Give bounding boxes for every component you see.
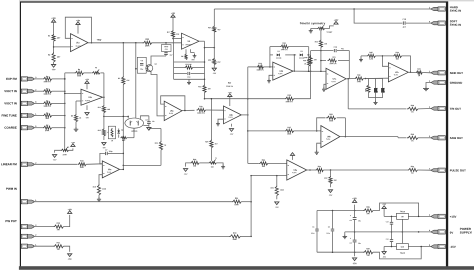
power flag -15V (R12 bottom) — [101, 136, 106, 149]
svg-text:100K: 100K — [234, 204, 239, 206]
wire ground jack — [426, 83, 431, 87]
svg-text:+5V: +5V — [97, 38, 102, 42]
output label -15V — [450, 245, 456, 249]
wire R46 to out — [402, 56, 411, 72]
svg-text:R11: R11 — [98, 107, 101, 109]
resistor R16c — [197, 106, 206, 114]
wire U2a feedback left rail — [65, 72, 75, 74]
wire bus to U2a -in — [64, 78, 81, 94]
power flag +15V (R17 top) — [171, 13, 176, 30]
svg-text:R46: R46 — [396, 51, 399, 54]
wire R34 down to linFM line — [123, 150, 161, 165]
svg-text:R31: R31 — [57, 242, 60, 244]
svg-text:R16: R16 — [208, 60, 211, 62]
svg-text:TL074: TL074 — [76, 45, 81, 48]
resistor R13b — [121, 137, 135, 142]
wire R33 to bus — [240, 235, 251, 237]
svg-text:510E: 510E — [366, 89, 368, 93]
resistor R8 — [75, 69, 84, 77]
power flag +15V (R30) — [67, 209, 72, 213]
resistor R23 — [326, 114, 336, 122]
op-amp U6b — [321, 126, 340, 148]
power flag -15V (U2b) — [229, 124, 234, 136]
power flag -15V (R2 bottom) — [51, 62, 56, 71]
svg-text:+15V: +15V — [51, 18, 56, 20]
svg-text:2M2: 2M2 — [45, 118, 49, 120]
svg-text:78L10: 78L10 — [400, 211, 405, 213]
input label PWM IN — [6, 187, 17, 191]
ground (U4 fb) — [187, 79, 191, 84]
op-amp U7b — [388, 63, 408, 82]
svg-text:+15V: +15V — [334, 20, 339, 22]
wire saw line — [345, 137, 406, 138]
wire reg2 gnd — [401, 232, 403, 244]
wire R31 to -15V — [63, 246, 69, 252]
capacitor C7 — [105, 150, 112, 156]
diode D2 — [374, 79, 379, 98]
wire diode tap — [294, 55, 296, 72]
jack J4 ground — [429, 80, 445, 84]
resistor R2 — [48, 52, 60, 62]
svg-text:+15V: +15V — [450, 215, 457, 219]
svg-text:D4: D4 — [278, 50, 280, 53]
wire V/OCT IN to R5 — [34, 102, 42, 104]
jack J13 0V — [429, 229, 445, 234]
wire U7a fb mid — [320, 51, 349, 72]
wire U5b fb top — [270, 46, 309, 48]
output label SOFT SYNC IN — [450, 19, 461, 26]
wire T3 to U2a out rail — [100, 73, 104, 97]
jack J6 saw out — [429, 136, 445, 140]
svg-text:T1: T1 — [215, 158, 217, 160]
ground (U6b) — [315, 150, 319, 154]
svg-text:4n7: 4n7 — [403, 26, 406, 29]
wire U7a fb right rail — [348, 51, 350, 79]
svg-text:COARSE: COARSE — [4, 126, 16, 130]
power flag +15V (PSU) — [352, 198, 357, 202]
resistor R29 — [205, 139, 217, 147]
power flag +15V (T2) — [69, 142, 76, 150]
jack J11 soft sync — [429, 20, 445, 25]
output label SINE OUT — [450, 71, 464, 75]
svg-text:R13: R13 — [122, 140, 125, 142]
trimmer T4 — [317, 25, 332, 34]
svg-text:D5: D5 — [301, 51, 303, 53]
power flag -15V (R28) — [183, 163, 190, 176]
op-amp U2a — [81, 89, 103, 105]
resistor R28 — [190, 159, 199, 167]
wire C7 loop — [100, 153, 123, 163]
jack J V/OCT IN — [21, 89, 37, 93]
wire U7a +in ground — [324, 84, 326, 87]
wire R17 to U4 -in — [172, 37, 181, 39]
transistor pair Q2 Q3 — [125, 118, 148, 133]
wire U8a +in line — [250, 175, 286, 177]
resistor R35 — [303, 58, 310, 66]
power flag +15V (U2b) — [227, 92, 232, 106]
svg-text:4u7: 4u7 — [169, 54, 172, 57]
wire reg1 gnd — [401, 219, 403, 232]
svg-text:R3: R3 — [46, 76, 48, 78]
wire pot bottom — [34, 245, 53, 247]
node U7a out — [346, 78, 354, 80]
capacitor C8 box — [137, 57, 146, 73]
svg-text:100K: 100K — [329, 120, 334, 122]
power flag -15V (PSU) — [352, 258, 357, 265]
svg-text:C9: C9 — [152, 121, 154, 123]
ground (panel) — [423, 86, 429, 90]
resistor R7 — [43, 125, 52, 132]
svg-text:4K7: 4K7 — [217, 28, 220, 31]
power flag -15V (R25) — [274, 196, 279, 209]
wire FINE TUNE to R6 — [34, 115, 42, 117]
regulator U10 79L10 — [397, 244, 409, 255]
svg-text:V/OCT IN: V/OCT IN — [4, 101, 17, 105]
svg-text:EXP FM: EXP FM — [6, 77, 17, 81]
wire U5b out — [293, 70, 311, 72]
svg-text:U9: U9 — [401, 216, 403, 218]
svg-text:1.2M: 1.2M — [369, 58, 373, 60]
wire pwm line — [34, 201, 251, 203]
wire U7b fb — [382, 55, 393, 66]
output label PULSE OUT — [450, 168, 466, 172]
wire T4 to +15V flag — [325, 26, 334, 29]
resistor R24 — [232, 197, 241, 206]
svg-text:LM3046: LM3046 — [131, 130, 137, 133]
label sine tri symmetry — [300, 21, 326, 25]
output label SAW OUT — [450, 136, 463, 140]
tempco box R10 — [108, 126, 115, 142]
svg-text:100p: 100p — [109, 151, 113, 153]
resistor R31 — [53, 242, 63, 250]
resistor R46 — [393, 51, 402, 60]
ground (network) — [373, 100, 377, 104]
wire R49 to jack — [418, 137, 431, 139]
label POWER SUPPLY — [460, 227, 472, 235]
wire U2a out down — [103, 97, 105, 105]
svg-text:100K: 100K — [145, 45, 150, 47]
wire R14 to node — [213, 32, 215, 58]
node +5V — [91, 38, 102, 44]
svg-text:C15: C15 — [403, 19, 406, 21]
wire U4 out to sync chain — [205, 47, 216, 49]
wire U4 fb left rail — [172, 39, 175, 80]
svg-text:R27: R27 — [288, 127, 291, 129]
svg-text:C3: C3 — [350, 220, 352, 222]
wire U2a +in — [76, 101, 81, 114]
svg-text:SINE OUT: SINE OUT — [450, 71, 464, 75]
jack J9c pw pot bottom — [21, 244, 37, 248]
jack J14 -15V — [429, 244, 445, 248]
svg-text:R36: R36 — [304, 57, 307, 59]
svg-text:R47: R47 — [417, 68, 420, 71]
svg-text:0V: 0V — [450, 231, 454, 235]
svg-text:R28: R28 — [193, 159, 196, 161]
svg-text:2K2: 2K2 — [217, 62, 220, 64]
power flag +15V (U1a supply) — [76, 20, 81, 33]
svg-text:1K8: 1K8 — [107, 109, 110, 111]
wire bus to trimmer T2 — [64, 128, 66, 149]
resistor R44 network — [366, 79, 370, 98]
svg-text:+15V: +15V — [352, 198, 357, 200]
wire pot top — [34, 226, 53, 228]
wire tri line — [348, 108, 406, 110]
resistor R41 — [328, 56, 337, 65]
wire reg2 input — [384, 246, 396, 248]
wire linFM line — [34, 163, 77, 165]
svg-text:R18: R18 — [80, 160, 83, 162]
wire R27 line — [248, 130, 321, 132]
input label V/OCT IN — [4, 89, 17, 93]
wire R5 to CV bus — [52, 103, 66, 105]
op-amp U4 LM13700 — [182, 33, 200, 49]
op-amp U5a — [164, 101, 182, 121]
resistor R43 — [354, 74, 363, 83]
svg-text:U10: U10 — [401, 246, 404, 248]
capacitor C15 — [403, 19, 406, 29]
wire U7a fb top — [311, 50, 350, 52]
jack J9a pw pot top — [21, 225, 37, 229]
wire gnd to T4 — [311, 28, 317, 30]
op-amp U8a — [287, 160, 307, 180]
wire Q1 emitter to U5a — [151, 72, 164, 116]
svg-text:R20: R20 — [228, 82, 231, 84]
input label EXP FM — [6, 77, 17, 81]
node U2b out — [241, 114, 248, 116]
trimmer T3 — [92, 67, 100, 74]
svg-text:R43: R43 — [357, 74, 360, 77]
svg-text:R22: R22 — [145, 39, 149, 41]
resistor R13 (U4 fb) — [174, 64, 205, 69]
svg-text:R40: R40 — [315, 40, 318, 43]
ground (PSU) — [343, 232, 348, 239]
jack J5 tri out — [429, 106, 445, 110]
svg-text:220K 1%: 220K 1% — [226, 86, 233, 88]
wire T1 riser — [211, 98, 213, 139]
wire R18 to U6a — [86, 163, 102, 166]
svg-text:GROUND: GROUND — [450, 81, 462, 85]
resistor R36 — [304, 55, 317, 64]
resistor R19 — [256, 63, 264, 71]
wire U5b fb mid — [270, 54, 309, 56]
svg-text:TRI OUT: TRI OUT — [450, 107, 461, 111]
svg-text:T3: T3 — [95, 67, 97, 69]
svg-text:100K: 100K — [80, 167, 85, 169]
power flag +15V (U8a) — [290, 153, 295, 160]
svg-text:R12: R12 — [98, 130, 101, 132]
wire U6b +in ground — [317, 143, 321, 150]
power flag -15V (R31) — [67, 254, 72, 261]
wire R13b to pair — [133, 128, 135, 138]
jack J V/OCT IN — [21, 101, 37, 105]
ground (R45) — [359, 56, 363, 62]
wire soft sync branch — [354, 9, 402, 23]
power flag -15V (reg in) — [382, 247, 387, 259]
resistor R21 — [280, 43, 288, 51]
svg-text:SUPPLY!: SUPPLY! — [460, 231, 472, 235]
svg-text:10u: 10u — [140, 69, 143, 71]
svg-text:PW POT: PW POT — [5, 219, 17, 223]
wire R8 to T3 — [84, 72, 92, 74]
resistor R12 — [98, 128, 112, 136]
wire R32 down — [330, 170, 332, 176]
wire COARSE to R7 — [34, 127, 42, 129]
svg-text:SAW OUT: SAW OUT — [450, 136, 463, 140]
svg-text:C1: C1 — [312, 226, 314, 228]
wire R20 line — [205, 98, 311, 100]
wire reg1 input — [384, 215, 396, 217]
wire U5b +in ground — [269, 75, 273, 78]
regulator U9 78L10 — [397, 211, 409, 219]
wire riser to U7a -in — [311, 71, 326, 73]
resistor R47 — [416, 68, 423, 77]
resistor R5 — [43, 101, 52, 108]
ground (U2b) — [216, 122, 220, 126]
wire +15V rail — [317, 210, 363, 212]
svg-text:LINEAR FM: LINEAR FM — [1, 162, 17, 166]
input label FINE TUNE — [2, 113, 17, 117]
svg-text:R20: R20 — [288, 95, 291, 97]
resistor RE (U4 pin) — [181, 54, 187, 60]
svg-text:T2: T2 — [67, 147, 69, 149]
diode D5 — [299, 51, 304, 60]
svg-text:R26: R26 — [262, 160, 265, 162]
wire EXP FM to R3 — [34, 78, 42, 80]
svg-text:R38: R38 — [366, 207, 369, 209]
svg-text:R37: R37 — [318, 166, 321, 168]
svg-text:79L10: 79L10 — [400, 253, 405, 255]
svg-text:R16: R16 — [199, 106, 202, 108]
resistor R15 (U4 out) — [198, 84, 211, 92]
svg-text:R35: R35 — [303, 60, 306, 62]
svg-text:C8: C8 — [141, 60, 143, 62]
wire pulse line — [323, 169, 407, 171]
ground (symmetry trimmer) — [309, 29, 313, 33]
resistor R27 — [285, 127, 294, 135]
wire V/OCT IN to R4 — [34, 90, 42, 92]
transistor Q1 — [146, 64, 157, 72]
svg-text:V/OCT IN: V/OCT IN — [4, 89, 17, 93]
power flag +15V (R1 top) — [51, 18, 56, 34]
resistor R6 — [43, 113, 52, 120]
wire T1 right to ground — [216, 163, 223, 165]
svg-text:LM13700: LM13700 — [185, 44, 191, 46]
wire U4 out — [199, 41, 205, 84]
ground (U7a) — [322, 87, 326, 91]
resistor R3 — [43, 76, 52, 83]
wire pot wiper line — [34, 235, 229, 237]
wire -15V rail — [317, 251, 363, 253]
svg-text:R2: R2 — [48, 54, 50, 56]
wire U5b fb rails — [270, 47, 310, 72]
trimmer T1 — [208, 158, 217, 169]
svg-text:R1: R1 — [48, 35, 50, 37]
svg-text:100K 1%: 100K 1% — [43, 81, 51, 83]
node U2a out — [103, 96, 105, 98]
svg-text:4K7: 4K7 — [214, 142, 217, 145]
svg-text:100K 1%: 100K 1% — [43, 106, 51, 108]
output label GROUND — [450, 81, 462, 85]
power flag -15V (R32) — [328, 184, 333, 197]
wire U2b +in ground — [218, 119, 224, 121]
wire R38 loop — [373, 203, 419, 216]
svg-text:PULSE OUT: PULSE OUT — [450, 168, 466, 172]
resistor R21b on v1 — [118, 76, 130, 84]
input label COARSE — [4, 126, 16, 130]
resistor R32 — [324, 176, 337, 184]
capacitor C12 — [334, 47, 344, 53]
svg-text:Q1: Q1 — [154, 64, 156, 66]
wire R6 to CV bus — [52, 115, 66, 117]
resistor R14 — [208, 26, 220, 33]
resistor R25 — [271, 185, 285, 195]
wire R11-R12 — [103, 113, 105, 129]
svg-text:R8: R8 — [78, 69, 80, 71]
svg-text:2K7: 2K7 — [57, 38, 60, 40]
svg-text:R14: R14 — [208, 26, 211, 29]
power flag +15V (T4) — [334, 20, 339, 24]
svg-text:FINE TUNE: FINE TUNE — [2, 113, 17, 117]
wire PWM bus vertical — [250, 176, 252, 238]
wire R39 loop — [373, 247, 421, 259]
capacitor C11 box — [162, 43, 172, 52]
resistor R30 — [53, 223, 63, 231]
wire R43 to network — [363, 78, 388, 80]
resistor R9 — [71, 114, 82, 122]
wire +5V rail to linFM node (v1) — [123, 43, 125, 170]
wire hard sync line — [214, 8, 431, 10]
wire R45 to jack — [417, 169, 431, 171]
svg-text:R29: R29 — [205, 141, 208, 143]
jack J COARSE — [21, 126, 37, 130]
wire U5a feedback — [161, 96, 185, 111]
svg-text:D1: D1 — [121, 130, 123, 132]
resistor R39 — [363, 248, 373, 256]
svg-text:R2: R2 — [118, 78, 120, 80]
wire U2b out vertical — [247, 67, 249, 163]
wire +5V rail — [88, 42, 182, 44]
resistor R45 — [361, 51, 382, 60]
ground (U6a) — [97, 195, 101, 201]
power flag -15V (sync chain) — [212, 65, 217, 75]
output label HARD SYNC IN — [450, 5, 461, 12]
resistor R1 — [48, 34, 60, 41]
node U8a out — [307, 169, 316, 171]
capacitor C2 leg — [326, 211, 334, 253]
wire R15 to R20 line — [204, 93, 206, 100]
op-amp U6a — [102, 161, 119, 178]
wire network top — [365, 78, 382, 80]
capacitor C1 leg — [311, 211, 319, 253]
wire sine riser — [310, 51, 312, 99]
svg-text:R5: R5 — [46, 101, 48, 103]
jack J EXP FM — [21, 77, 37, 81]
svg-text:100K 1%: 100K 1% — [197, 113, 205, 115]
svg-text:100K 1%: 100K 1% — [256, 69, 264, 71]
svg-text:R45: R45 — [369, 51, 372, 54]
wire U6a +in — [99, 175, 102, 184]
capacitor C10 (U4 fb) — [174, 72, 205, 79]
svg-text:C13: C13 — [386, 221, 389, 223]
diode D3 — [381, 79, 386, 98]
wire U6a out — [120, 169, 124, 171]
wire 0V rail — [345, 231, 431, 233]
svg-text:C2: C2 — [328, 226, 330, 228]
power flag +15V (U2a supply) — [85, 79, 90, 89]
svg-text:R21: R21 — [283, 43, 286, 45]
svg-text:100K: 100K — [287, 133, 292, 135]
wire R1-R2 — [53, 41, 55, 52]
